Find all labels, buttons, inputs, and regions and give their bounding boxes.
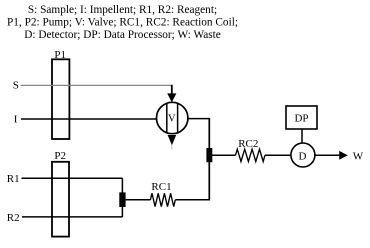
wire RC2 to detector (265, 154, 291, 156)
svg-text:I: I (14, 113, 18, 125)
svg-text:D: Detector; DP: Data Processo: D: Detector; DP: Data Processor; W: Wast… (24, 29, 221, 41)
wire S drop into valve (171, 85, 173, 94)
wire I (21, 118, 157, 120)
svg-text:RC1: RC1 (151, 181, 171, 193)
wire valve to tee (188, 118, 209, 120)
wire D to waste (315, 154, 340, 156)
svg-text:S: S (13, 80, 19, 92)
svg-text:V: V (168, 114, 176, 125)
wire S (21, 84, 172, 86)
wire RC1 to riser (175, 199, 210, 201)
wire tee to RC2 (212, 154, 236, 156)
svg-text:R1: R1 (7, 173, 20, 185)
svg-text:S: Sample; I: Impellent; R1, R: S: Sample; I: Impellent; R1, R2: Reagent… (28, 4, 217, 16)
wire R2 (22, 216, 122, 218)
reaction coil RC1 (150, 193, 175, 206)
label DP box (286, 106, 317, 129)
svg-text:DP: DP (294, 113, 308, 125)
arrowhead to W (339, 151, 348, 160)
wire R1 (22, 177, 123, 179)
pump P1 (52, 59, 69, 139)
svg-text:P2: P2 (54, 150, 66, 162)
wire vertical tee riser (208, 118, 210, 201)
svg-text:R2: R2 (7, 212, 20, 224)
svg-text:P1, P2: Pump; V: Valve; RC1, R: P1, P2: Pump; V: Valve; RC1, RC2: Reacti… (7, 17, 238, 29)
valve V left chord (166, 104, 168, 133)
valve bottom waste arrowhead (168, 135, 177, 145)
svg-text:W: W (353, 150, 364, 162)
valve V circle (157, 102, 188, 133)
wire R1-R2 merge vertical (121, 178, 123, 217)
detector D circle (291, 143, 315, 167)
reaction coil RC2 (236, 149, 265, 161)
valve V right chord (177, 104, 179, 133)
arrowhead into valve top (167, 93, 176, 102)
junction node bar (R1+R2 confluence) (119, 192, 125, 207)
wire junction to RC1 (126, 199, 151, 201)
junction node bar (tee to RC2) (206, 148, 212, 162)
svg-text:D: D (299, 150, 307, 162)
pump P2 (52, 162, 69, 237)
wire DP to D (301, 129, 303, 143)
svg-text:RC2: RC2 (238, 138, 258, 150)
valve waste stub (171, 145, 173, 149)
